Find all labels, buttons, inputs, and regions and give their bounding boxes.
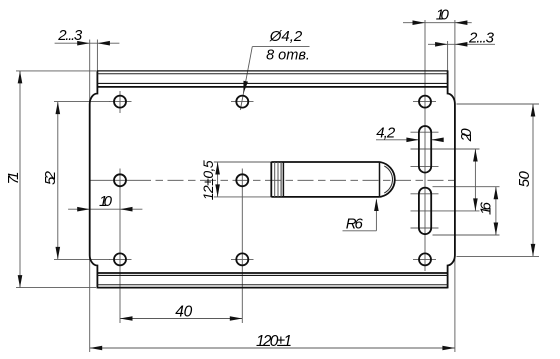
svg-text:Ø4,2: Ø4,2	[269, 28, 303, 45]
svg-text:R6: R6	[346, 215, 364, 232]
svg-text:120±1: 120±1	[256, 333, 292, 350]
svg-text:71: 71	[5, 172, 22, 185]
svg-text:8 отв.: 8 отв.	[266, 48, 310, 64]
svg-text:16: 16	[478, 201, 495, 215]
svg-text:2...3: 2...3	[57, 27, 83, 44]
svg-text:40: 40	[175, 304, 192, 321]
svg-text:10: 10	[99, 193, 113, 210]
svg-text:2...3: 2...3	[468, 30, 495, 47]
svg-text:20: 20	[458, 128, 475, 143]
svg-text:10: 10	[436, 6, 450, 23]
svg-text:50: 50	[516, 171, 533, 188]
svg-text:52: 52	[42, 170, 59, 185]
svg-text:12±0,5: 12±0,5	[200, 160, 216, 200]
svg-text:4,2: 4,2	[376, 124, 396, 141]
